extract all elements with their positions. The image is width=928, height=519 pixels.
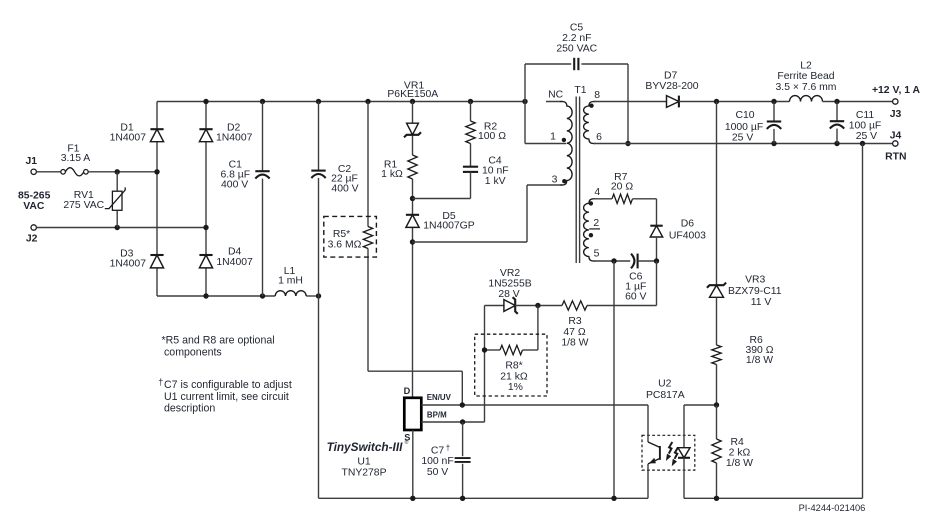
capacitor C7 100 nF 50 V: [421, 422, 470, 498]
node VR3 top junction: [714, 99, 719, 104]
svg-text:C11: C11: [856, 110, 875, 121]
wire R1-C4 link: [413, 198, 471, 200]
wire R8 left: [485, 349, 501, 351]
wire fuse to bridge: [88, 171, 157, 173]
svg-text:1/8 W: 1/8 W: [746, 355, 773, 366]
wire primary bottom rail: [157, 295, 319, 297]
svg-text:R8*: R8*: [505, 360, 522, 371]
wire R5 branch upper: [367, 102, 369, 227]
svg-text:D: D: [404, 386, 411, 396]
wire R8 link down: [537, 306, 539, 351]
svg-text:P6KE150A: P6KE150A: [387, 89, 438, 100]
node pin5 junction: [611, 258, 616, 263]
svg-text:100 Ω: 100 Ω: [478, 131, 506, 142]
svg-text:1/8 W: 1/8 W: [561, 338, 588, 349]
label PI-4244-021406: [799, 503, 866, 513]
zener VR2 1N5255B: [488, 268, 531, 314]
svg-text:3.15 A: 3.15 A: [61, 153, 91, 164]
svg-text:J4: J4: [890, 130, 902, 141]
wire C5 left: [525, 63, 571, 65]
wire C5 drop to primary rail: [524, 64, 526, 144]
svg-text:1N4007: 1N4007: [216, 133, 253, 144]
svg-text:†: †: [158, 377, 163, 387]
label T1 pin6: [596, 132, 602, 143]
svg-text:1N4007GP: 1N4007GP: [423, 221, 474, 232]
svg-text:description: description: [164, 403, 215, 415]
dashed box around R8: [475, 334, 547, 396]
winding T1 primary NC-1-3: [560, 102, 572, 186]
svg-text:T1: T1: [574, 85, 586, 96]
svg-text:400 V: 400 V: [221, 179, 248, 190]
svg-text:25 V: 25 V: [732, 132, 753, 143]
wire J2 to bridge: [36, 227, 206, 229]
node D4 bottom junction: [203, 293, 208, 298]
node R5 top junction: [365, 99, 370, 104]
note R5 R8 optional: [162, 334, 275, 358]
svg-text:1N4007: 1N4007: [216, 257, 253, 268]
node C10 top junction: [771, 99, 776, 104]
node C10 bottom junction: [771, 141, 776, 146]
node C6 right junction: [654, 258, 659, 263]
winding T1 secondary 8-6: [584, 102, 596, 144]
wire R7 to D6: [633, 199, 657, 226]
resistor R8 21 kohm: [500, 345, 528, 393]
node J4 output terminal: [885, 130, 906, 162]
wire pin5 down: [613, 261, 615, 498]
svg-text:2: 2: [593, 218, 599, 229]
svg-text:1 kV: 1 kV: [485, 176, 506, 187]
node BP/M junction: [460, 419, 465, 424]
node D2 top junction: [203, 99, 208, 104]
svg-text:TinySwitch-III: TinySwitch-III: [327, 440, 404, 454]
transformer T1 core: [574, 85, 586, 263]
node J2 input terminal: [26, 225, 38, 245]
inductor L1 1 mH: [275, 266, 306, 296]
svg-text:EN/UV: EN/UV: [427, 393, 452, 402]
wire primary ground rail: [319, 497, 649, 499]
svg-text:D7: D7: [664, 70, 678, 81]
wire BPM riser: [484, 306, 486, 423]
fuse F1 3.15 A: [61, 143, 91, 176]
svg-text:VR2: VR2: [500, 268, 520, 279]
node VR2-R3 junction: [535, 303, 540, 308]
node T1 pin4 phase dot: [589, 187, 601, 206]
svg-text:J2: J2: [26, 233, 38, 244]
svg-text:U1: U1: [357, 457, 371, 468]
wire pin4 to R7: [593, 198, 612, 200]
svg-text:10 nF: 10 nF: [482, 166, 509, 177]
dashed box around U2: [642, 435, 695, 470]
wire pin6 RTN rail: [593, 143, 892, 145]
wire primary return down: [318, 296, 320, 498]
label 85-265 VAC: [18, 191, 51, 212]
svg-text:47 Ω: 47 Ω: [563, 327, 585, 338]
node RV1 top junction: [115, 169, 120, 174]
wire VR3 branch top: [716, 102, 718, 285]
diode D3 1N4007: [110, 249, 164, 270]
svg-text:2.2 nF: 2.2 nF: [562, 33, 591, 44]
led U2 photodiode: [678, 405, 690, 498]
svg-text:60 V: 60 V: [625, 291, 646, 302]
wire D6 to C6 node: [656, 237, 658, 261]
svg-text:1: 1: [550, 131, 556, 142]
resistor R6 390 ohm: [712, 335, 774, 366]
node J1 input terminal: [26, 156, 38, 175]
svg-text:8: 8: [594, 90, 600, 101]
svg-text:Ferrite Bead: Ferrite Bead: [777, 71, 834, 82]
svg-text:100 nF: 100 nF: [421, 456, 453, 467]
winding T1 bias 4-2-5: [584, 199, 596, 261]
wire R5 branch lower: [368, 249, 462, 406]
wire C5 right: [581, 64, 628, 144]
svg-text:VR3: VR3: [745, 275, 765, 286]
wire R2 branch top: [470, 102, 472, 122]
wire R4 top: [716, 405, 718, 439]
wire J1 to fuse: [36, 171, 60, 173]
wire L2 to J3: [823, 101, 893, 103]
svg-text:U1 current limit, see circuit: U1 current limit, see circuit: [164, 391, 289, 403]
capacitor C1 6.8uF 400V: [220, 102, 269, 297]
svg-text:25 V: 25 V: [856, 131, 877, 142]
node T1 pin2 phase dot: [589, 233, 593, 237]
wire VR2 cathode: [515, 305, 562, 307]
svg-text:1 kΩ: 1 kΩ: [381, 169, 403, 180]
svg-text:*R5 and R8 are optional: *R5 and R8 are optional: [162, 334, 275, 346]
svg-text:100 µF: 100 µF: [849, 120, 882, 131]
label TinySwitch-III: [327, 439, 409, 478]
svg-text:RTN: RTN: [885, 152, 906, 163]
wire R8 right: [523, 349, 538, 351]
node C1 bottom junction: [260, 293, 265, 298]
wire VR2 anode: [485, 305, 504, 307]
svg-text:UF4003: UF4003: [669, 230, 706, 241]
wire R2-C4 link: [470, 144, 472, 167]
wire C6 branch down: [587, 261, 657, 306]
svg-text:U2: U2: [658, 379, 672, 390]
node RTN drop junction: [860, 141, 865, 146]
zener VR3 BZX79-C11: [707, 275, 782, 308]
svg-text:BP/M: BP/M: [427, 410, 447, 419]
svg-text:PC817A: PC817A: [646, 390, 685, 401]
label NC stub: [546, 90, 564, 102]
capacitor C6 1uF 60V: [625, 254, 656, 303]
node C7-rail junction: [460, 496, 465, 501]
node R8 left junction: [482, 347, 487, 352]
svg-text:C10: C10: [735, 110, 754, 121]
capacitor C4 10 nF 1 kV: [463, 155, 509, 187]
node T1 pin8 phase dot: [589, 90, 600, 108]
zener VR1 P6KE150A: [387, 80, 438, 137]
svg-text:3.5 × 7.6 mm: 3.5 × 7.6 mm: [776, 82, 837, 93]
svg-text:NC: NC: [548, 90, 564, 101]
diode D5 1N4007GP: [406, 211, 475, 232]
svg-text:1%: 1%: [508, 382, 523, 393]
diode D1 1N4007: [110, 122, 164, 143]
wire bridge right branch: [205, 102, 207, 297]
svg-text:R3: R3: [568, 316, 582, 327]
node C5 branch junction: [522, 99, 527, 104]
svg-text:C5: C5: [570, 22, 584, 33]
svg-text:5: 5: [594, 248, 600, 259]
wire primary top rail: [157, 101, 525, 103]
svg-text:BYV28-200: BYV28-200: [645, 81, 698, 92]
wire pin8 to D7: [593, 101, 666, 103]
label U2 PC817A: [646, 379, 685, 402]
wire secondary ground rail: [684, 144, 863, 499]
capacitor C10 1000uF 25V: [725, 102, 781, 144]
svg-text:2 kΩ: 2 kΩ: [729, 448, 751, 459]
node fuse-bridge junction: [154, 169, 159, 174]
node R2 top junction: [468, 99, 473, 104]
svg-text:250 VAC: 250 VAC: [556, 44, 597, 55]
svg-text:components: components: [164, 346, 222, 358]
node source-rail junction: [410, 496, 415, 501]
wire VR3 to R6: [716, 297, 718, 345]
transistor U2 phototransistor: [648, 405, 660, 498]
wire EN/UV: [421, 393, 648, 405]
resistor R3 47 ohm: [561, 301, 588, 349]
node R6-R4 junction: [714, 402, 719, 407]
svg-text:1 mH: 1 mH: [278, 276, 303, 287]
wire D7 to L2: [679, 101, 790, 103]
wire opto LED top: [684, 404, 717, 406]
node C5-RTN junction: [625, 141, 630, 146]
svg-text:1N4007: 1N4007: [110, 133, 147, 144]
node pin5-rail junction: [611, 496, 616, 501]
node R1-C4 junction: [410, 196, 415, 201]
svg-text:21 kΩ: 21 kΩ: [500, 371, 528, 382]
wire pin2 stub: [589, 218, 600, 229]
wire BP/M: [421, 410, 484, 422]
svg-text:275 VAC: 275 VAC: [63, 200, 104, 211]
light arrows U2: [666, 442, 678, 466]
node C2 top junction: [316, 99, 321, 104]
resistor R1 1 kohm: [381, 155, 417, 180]
label T1 pin5: [594, 248, 600, 259]
svg-text:D6: D6: [681, 219, 695, 230]
node J3 output terminal: [872, 85, 921, 120]
svg-text:4: 4: [594, 187, 600, 198]
node VR1 top junction: [410, 99, 415, 104]
resistor R4 2 kohm: [712, 437, 753, 469]
svg-text:1000 µF: 1000 µF: [725, 122, 763, 133]
svg-text:TNY278P: TNY278P: [341, 467, 386, 478]
node C11 top junction: [834, 99, 839, 104]
svg-text:L2: L2: [800, 61, 812, 72]
resistor R5 3.6 Mohm: [328, 227, 373, 251]
svg-text:®: ®: [405, 439, 409, 446]
node D5-pin3 junction: [410, 239, 415, 244]
node T1 pin3 phase dot: [552, 175, 567, 186]
diode D6 UF4003: [650, 219, 706, 242]
node L1-C2 junction: [316, 293, 321, 298]
resistor R2 100 ohm: [466, 121, 506, 144]
resistor R7 20 ohm: [611, 172, 633, 204]
capacitor C11 100uF 25V: [830, 102, 881, 144]
node R4-rail junction: [714, 496, 719, 501]
capacitor C2 22uF 400V: [311, 102, 358, 297]
svg-text:J3: J3: [890, 109, 902, 120]
wire clamp branch: [412, 102, 414, 398]
svg-text:C7: C7: [431, 446, 445, 457]
wire R6 to node: [716, 365, 718, 406]
svg-text:6: 6: [596, 132, 602, 143]
inductor L2 ferrite bead: [776, 61, 837, 102]
svg-text:VAC: VAC: [23, 201, 45, 212]
svg-text:BZX79-C11: BZX79-C11: [728, 286, 782, 297]
node C11 bottom junction: [834, 141, 839, 146]
svg-text:20 Ω: 20 Ω: [611, 181, 633, 192]
diode D2 1N4007: [199, 122, 252, 143]
svg-text:R5*: R5*: [333, 229, 350, 240]
node EN/UV junction: [460, 402, 465, 407]
svg-text:400 V: 400 V: [331, 183, 358, 194]
wire bridge left branch: [156, 102, 158, 297]
ic U1 TNY278P body: [404, 386, 422, 442]
svg-text:28 V: 28 V: [498, 289, 519, 300]
svg-text:+12 V, 1 A: +12 V, 1 A: [872, 85, 921, 96]
node C1 top junction: [260, 99, 265, 104]
node J2-bridge junction: [203, 225, 208, 230]
svg-text:D4: D4: [228, 247, 242, 258]
varistor RV1 275 VAC: [63, 172, 125, 228]
capacitor C5 2.2 nF 250 VAC: [556, 22, 597, 70]
diode D7 BYV28-200: [645, 70, 698, 107]
svg-text:1N5255B: 1N5255B: [488, 279, 531, 290]
wire C4 bottom: [470, 172, 472, 199]
svg-text:3: 3: [552, 175, 558, 186]
svg-text:1/8 W: 1/8 W: [726, 458, 753, 469]
svg-text:J1: J1: [26, 156, 38, 167]
svg-text:†: †: [446, 444, 450, 453]
note C7 configurable: [158, 377, 292, 414]
dashed box around R5: [324, 216, 377, 257]
wire pin1 lead: [525, 143, 566, 145]
wire U1 source down: [412, 430, 414, 498]
svg-text:3.6 MΩ: 3.6 MΩ: [328, 240, 362, 251]
diode D4 1N4007: [199, 247, 253, 268]
svg-text:PI-4244-021406: PI-4244-021406: [799, 503, 866, 513]
wire pin5 lead: [593, 260, 630, 262]
wire pin3 link: [413, 185, 563, 242]
svg-text:11 V: 11 V: [751, 297, 772, 308]
svg-text:50 V: 50 V: [427, 467, 448, 478]
node RV1 bottom junction: [115, 225, 120, 230]
svg-text:1N4007: 1N4007: [110, 258, 147, 269]
svg-text:C7 is configurable to adjust: C7 is configurable to adjust: [164, 379, 292, 391]
node T1 pin1 phase dot: [550, 131, 566, 142]
wire R4 bottom: [716, 463, 718, 498]
